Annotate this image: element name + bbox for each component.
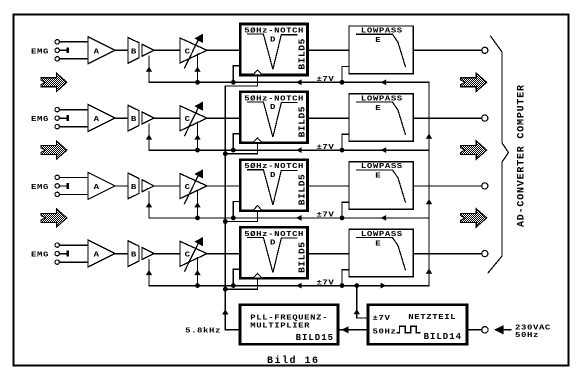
output terminal channel 3 bbox=[482, 183, 488, 189]
signal flow arrow right 1 bbox=[461, 73, 487, 91]
svg-text:±7V: ±7V bbox=[316, 211, 334, 219]
input terminals channel 1 bbox=[55, 40, 59, 44]
wire buffer to C3 bbox=[154, 185, 180, 187]
wire input- to A3 bbox=[60, 193, 89, 195]
svg-text:D: D bbox=[270, 172, 276, 180]
rail flow arrow left row 1 bbox=[296, 79, 302, 85]
variable-gain amp C2 bbox=[180, 102, 207, 136]
wire buffer to C1 bbox=[154, 49, 180, 51]
clock flow arrow up bbox=[222, 309, 228, 314]
input terminals channel 2 bbox=[55, 107, 59, 111]
reference electrode channel 3 bbox=[60, 185, 67, 187]
lowpass filter E channel 3 bbox=[349, 162, 413, 210]
rail flow arrow left row 3 bbox=[296, 215, 302, 221]
junction notch riser 1 bbox=[231, 80, 236, 85]
wire supply riser from NETZTEIL bbox=[357, 286, 368, 318]
lowpass filter E channel 4 bbox=[349, 229, 413, 277]
svg-text:A: A bbox=[94, 251, 100, 259]
op-amp A3 (preamp) bbox=[88, 172, 115, 199]
wire clock feed row 4 bbox=[225, 278, 257, 289]
rail flow arrow left row 4 bbox=[296, 283, 302, 289]
wire NETZTEIL to PLL (50Hz) bbox=[338, 329, 368, 331]
junction notch riser 4 bbox=[231, 283, 236, 288]
mains flow arrow bbox=[494, 325, 504, 334]
supply riser to notch 2 bbox=[233, 134, 240, 151]
op-amp A1 (preamp) bbox=[88, 37, 115, 64]
junction lowpass riser 1 bbox=[340, 80, 345, 85]
supply riser to lowpass 3 bbox=[342, 202, 349, 218]
wire notch to lowpass channel 3 bbox=[308, 185, 350, 187]
wire input+ to A1 bbox=[60, 41, 89, 43]
svg-text:BILD5: BILD5 bbox=[296, 241, 307, 273]
svg-text:BILD15: BILD15 bbox=[296, 333, 334, 343]
op-amp B1 bbox=[128, 38, 139, 64]
wire A4 to B4 bbox=[115, 253, 128, 255]
svg-text:A: A bbox=[94, 116, 100, 124]
brace to AD converter bbox=[488, 36, 509, 273]
supply rail +-7V row 3 bbox=[149, 192, 429, 218]
50Hz square wave symbol bbox=[397, 326, 420, 333]
svg-text:BILD14: BILD14 bbox=[424, 332, 462, 342]
input terminals channel 4 bbox=[55, 243, 59, 247]
buffer amp channel 3 bbox=[142, 180, 154, 192]
rail flow arrow left row 2 bbox=[296, 147, 302, 153]
wire input+ to A4 bbox=[60, 244, 89, 246]
svg-text:B: B bbox=[131, 116, 137, 124]
wire lowpass to output terminal 4 bbox=[413, 253, 481, 255]
wire supply to C1 bbox=[197, 54, 199, 82]
svg-text:B: B bbox=[131, 251, 137, 259]
rail flow arrow mid row 3 bbox=[381, 215, 387, 221]
svg-text:C: C bbox=[185, 48, 191, 56]
junction lowpass riser 2 bbox=[340, 148, 345, 153]
clock pin of notch 1 bbox=[253, 70, 262, 75]
wire input+ to A3 bbox=[60, 176, 89, 178]
svg-text:C: C bbox=[185, 251, 191, 259]
svg-text:B: B bbox=[131, 184, 137, 192]
supply arrow into buffer row 4 bbox=[146, 270, 152, 275]
reference electrode channel 1 bbox=[60, 49, 67, 51]
wire A1 to B1 bbox=[115, 49, 128, 51]
output terminal channel 2 bbox=[482, 115, 488, 121]
wire A3 to B3 bbox=[115, 185, 128, 187]
power supply NETZTEIL block (BILD14) bbox=[368, 305, 467, 344]
wire mains input bbox=[467, 329, 482, 331]
50Hz notch filter D channel 3 (BILD5) bbox=[240, 160, 307, 211]
trunk flow arrow 1 bbox=[426, 134, 432, 139]
svg-text:A: A bbox=[94, 48, 100, 56]
junction lowpass riser 4 bbox=[340, 283, 345, 288]
clock pin of notch 4 bbox=[253, 273, 262, 278]
wire clock trunk from PLL bbox=[225, 86, 240, 330]
supply arrow into buffer row 3 bbox=[146, 202, 152, 207]
PLL frequency multiplier block (BILD15) bbox=[240, 305, 338, 344]
flow arrow 50Hz to PLL bbox=[341, 326, 348, 333]
wire C1 to notch bbox=[207, 49, 240, 51]
svg-text:C: C bbox=[185, 116, 191, 124]
svg-text:±7V: ±7V bbox=[316, 144, 334, 152]
wire buffer to C2 bbox=[154, 117, 180, 119]
wire input- to A2 bbox=[60, 126, 89, 128]
supply arrow into C1 bbox=[194, 67, 200, 72]
svg-text:MULTIPLIER: MULTIPLIER bbox=[250, 322, 310, 330]
svg-text:D: D bbox=[270, 104, 276, 112]
wire input- to A4 bbox=[60, 261, 89, 263]
wire A2 to B2 bbox=[115, 117, 128, 119]
supply riser to notch 4 bbox=[233, 269, 240, 286]
svg-text:PLL-FREQUENZ-: PLL-FREQUENZ- bbox=[250, 314, 328, 322]
junction notch riser 3 bbox=[231, 216, 236, 221]
trunk flow arrow 2 bbox=[426, 199, 432, 204]
junction supply C4 bbox=[195, 283, 200, 288]
rail flow arrow mid row 4 bbox=[381, 283, 387, 289]
variable-gain amp C4 bbox=[180, 237, 207, 271]
op-amp A4 (preamp) bbox=[88, 240, 115, 267]
svg-text:D: D bbox=[270, 239, 276, 247]
svg-text:E: E bbox=[375, 172, 381, 180]
svg-text:AD-CONVERTER COMPUTER: AD-CONVERTER COMPUTER bbox=[516, 84, 527, 227]
variable-gain amp C1 bbox=[180, 34, 207, 68]
svg-text:BILD5: BILD5 bbox=[296, 174, 307, 206]
wire buffer to C4 bbox=[154, 253, 180, 255]
input terminals channel 3 bbox=[55, 175, 59, 179]
wire input- to A1 bbox=[60, 58, 89, 60]
signal flow arrow left 3 bbox=[41, 209, 67, 227]
op-amp B4 bbox=[128, 241, 139, 267]
reference electrode channel 4 bbox=[60, 253, 67, 255]
junction clock trunk row 4 bbox=[223, 287, 228, 292]
svg-text:EMG: EMG bbox=[31, 48, 49, 56]
wire notch to lowpass channel 2 bbox=[308, 117, 350, 119]
svg-text:EMG: EMG bbox=[31, 116, 49, 124]
reference electrode channel 2 bbox=[60, 117, 67, 119]
svg-text:C: C bbox=[185, 184, 191, 192]
trunk flow arrow 3 bbox=[426, 269, 432, 274]
junction NETZTEIL riser bbox=[354, 283, 359, 288]
supply arrow into buffer row 2 bbox=[146, 134, 152, 139]
rail flow arrow mid row 1 bbox=[381, 79, 387, 85]
variable-gain amp C3 bbox=[180, 169, 207, 203]
50Hz notch filter D channel 1 (BILD5) bbox=[240, 24, 307, 75]
op-amp B2 bbox=[128, 105, 139, 131]
svg-text:B: B bbox=[131, 48, 137, 56]
supply riser to lowpass 2 bbox=[342, 134, 349, 150]
wire lowpass to output terminal 1 bbox=[413, 49, 481, 51]
svg-text:A: A bbox=[94, 184, 100, 192]
junction notch riser 2 bbox=[231, 148, 236, 153]
signal flow arrow right 2 bbox=[461, 141, 487, 159]
supply arrow into C2 bbox=[194, 134, 200, 139]
lowpass filter E channel 1 bbox=[349, 26, 413, 74]
wire supply trunk right bbox=[428, 82, 430, 285]
junction supply C1 bbox=[195, 80, 200, 85]
output terminal channel 4 bbox=[482, 251, 488, 257]
svg-text:5.8kHz: 5.8kHz bbox=[185, 326, 221, 335]
signal flow arrow right 3 bbox=[461, 209, 487, 227]
supply riser to notch 1 bbox=[233, 66, 240, 83]
svg-text:±7V: ±7V bbox=[373, 315, 391, 323]
supply riser to lowpass 1 bbox=[342, 67, 349, 83]
op-amp B3 bbox=[128, 173, 139, 199]
signal flow arrow left 2 bbox=[41, 141, 67, 159]
svg-text:50Hz: 50Hz bbox=[515, 332, 539, 340]
wire notch to lowpass channel 1 bbox=[308, 49, 350, 51]
wire C2 to notch bbox=[207, 117, 240, 119]
rail flow arrow mid row 2 bbox=[381, 147, 387, 153]
svg-text:E: E bbox=[375, 104, 381, 112]
supply rail +-7V row 1 bbox=[149, 56, 429, 82]
wire C3 to notch bbox=[207, 185, 240, 187]
op-amp A2 (preamp) bbox=[88, 105, 115, 132]
50Hz notch filter D channel 4 (BILD5) bbox=[240, 227, 307, 278]
wire clock feed row 1 bbox=[225, 75, 257, 86]
wire input+ to A2 bbox=[60, 109, 89, 111]
junction clock trunk row 3 bbox=[223, 219, 228, 224]
buffer amp channel 2 bbox=[142, 112, 154, 124]
lowpass filter E channel 2 bbox=[349, 94, 413, 142]
junction lowpass riser 3 bbox=[340, 216, 345, 221]
wire supply to C3 bbox=[197, 190, 199, 218]
supply arrow into C3 bbox=[194, 202, 200, 207]
wire lowpass to output terminal 3 bbox=[413, 185, 481, 187]
signal flow arrow left 1 bbox=[41, 73, 67, 91]
wire supply to C2 bbox=[197, 122, 199, 150]
supply arrow into C4 bbox=[194, 270, 200, 275]
wire lowpass to output terminal 2 bbox=[413, 117, 481, 119]
buffer amp channel 1 bbox=[142, 44, 154, 56]
wire C4 to notch bbox=[207, 253, 240, 255]
clock pin of notch 3 bbox=[253, 206, 262, 211]
svg-text:50Hz: 50Hz bbox=[373, 328, 397, 336]
supply riser to lowpass 4 bbox=[342, 270, 349, 286]
supply arrow into buffer row 1 bbox=[146, 67, 152, 72]
svg-text:BILD5: BILD5 bbox=[296, 106, 307, 138]
output terminal channel 1 bbox=[482, 47, 488, 53]
supply rail +-7V row 2 bbox=[149, 124, 429, 150]
svg-text:NETZTEIL: NETZTEIL bbox=[408, 314, 456, 322]
mains input terminal bbox=[482, 327, 488, 333]
wire notch to lowpass channel 4 bbox=[308, 253, 350, 255]
svg-text:Bild 16: Bild 16 bbox=[267, 355, 320, 367]
wire supply to C4 bbox=[197, 258, 199, 286]
svg-text:±7V: ±7V bbox=[316, 76, 334, 84]
junction supply C3 bbox=[195, 216, 200, 221]
wire clock feed row 3 bbox=[225, 210, 257, 221]
wire clock feed row 2 bbox=[225, 143, 257, 154]
clock pin of notch 2 bbox=[253, 138, 262, 143]
svg-text:E: E bbox=[375, 37, 381, 45]
junction clock trunk row 2 bbox=[223, 151, 228, 156]
supply riser to notch 3 bbox=[233, 201, 240, 218]
svg-text:D: D bbox=[270, 36, 276, 44]
50Hz notch filter D channel 2 (BILD5) bbox=[240, 92, 307, 143]
svg-text:E: E bbox=[375, 240, 381, 248]
svg-text:BILD5: BILD5 bbox=[296, 38, 307, 70]
junction supply C2 bbox=[195, 148, 200, 153]
supply rail +-7V row 4 bbox=[149, 259, 429, 285]
supply flow arrow from NETZTEIL bbox=[354, 309, 360, 314]
svg-text:EMG: EMG bbox=[31, 251, 49, 259]
svg-text:EMG: EMG bbox=[31, 184, 49, 192]
buffer amp channel 4 bbox=[142, 248, 154, 260]
svg-text:±7V: ±7V bbox=[316, 279, 334, 287]
